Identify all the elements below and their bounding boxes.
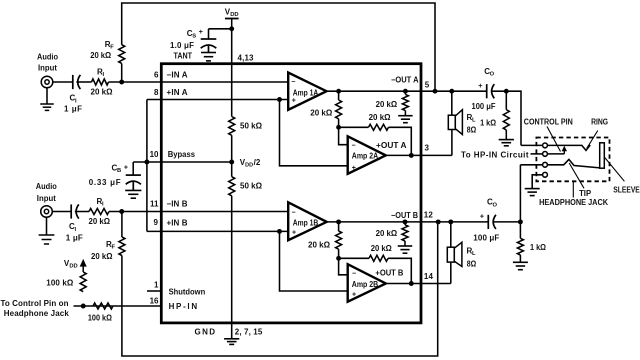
svg-text:9: 9 xyxy=(154,218,159,227)
ground CB xyxy=(125,190,141,198)
resistor RF A xyxy=(119,45,125,64)
svg-text:To HP-IN Circuit: To HP-IN Circuit xyxy=(461,151,529,160)
wire speaker B bottom lead xyxy=(450,262,452,283)
ground -OUT A 20k xyxy=(398,116,413,123)
wire speaker A top lead xyxy=(451,91,453,115)
wire Amp2A noninv input xyxy=(280,100,348,166)
resistor RI B xyxy=(89,209,109,215)
capacitor CB bypass xyxy=(126,175,141,190)
wire -OUT B xyxy=(327,221,489,223)
svg-text:O: O xyxy=(490,72,495,78)
IC body LM4863 outline xyxy=(161,64,421,323)
svg-text:100 kΩ: 100 kΩ xyxy=(88,314,113,323)
node +IN A bias tap xyxy=(277,97,282,102)
svg-text:Input: Input xyxy=(37,194,56,203)
wire CO B to jack xyxy=(493,221,521,223)
wire ring contact xyxy=(547,145,590,150)
wire 20k B horiz left lead xyxy=(339,257,369,259)
svg-text:20 kΩ: 20 kΩ xyxy=(90,51,112,60)
svg-text:DD: DD xyxy=(245,163,253,169)
svg-text:Amp 1A: Amp 1A xyxy=(293,88,319,97)
svg-text:−: − xyxy=(291,79,295,86)
node A loop feedback xyxy=(433,89,438,94)
svg-text:50 kΩ: 50 kΩ xyxy=(240,182,263,191)
svg-text:4,13: 4,13 xyxy=(238,53,255,62)
wire 50k lower to GND rail xyxy=(231,196,233,339)
wire control pin switch arm xyxy=(547,153,564,155)
wire bypass vertical xyxy=(146,100,148,232)
ground audio input A xyxy=(40,104,54,110)
svg-text:DD: DD xyxy=(69,264,77,270)
jack contact 4 sleeve xyxy=(543,172,548,177)
node B speaker tap xyxy=(448,219,453,224)
node bypass junction xyxy=(144,160,149,165)
wire 20k A horiz left lead xyxy=(339,126,369,128)
speaker RL B xyxy=(447,242,462,266)
svg-text:CONTROL PIN: CONTROL PIN xyxy=(524,118,573,127)
svg-text:−OUT B: −OUT B xyxy=(391,211,418,220)
wire CS lead xyxy=(208,29,210,39)
svg-text:+: + xyxy=(199,29,203,36)
svg-text:Audio: Audio xyxy=(36,182,57,191)
svg-text:1 μF: 1 μF xyxy=(66,233,83,242)
node B feedback tap xyxy=(336,256,341,261)
svg-text:−IN B: −IN B xyxy=(167,199,188,208)
ground GND pins xyxy=(224,339,239,345)
svg-text:+: + xyxy=(124,164,128,171)
svg-text:F: F xyxy=(110,45,114,51)
svg-text:+: + xyxy=(292,230,296,237)
svg-text:1 kΩ: 1 kΩ xyxy=(480,118,497,127)
wire audio A jack to ground xyxy=(46,88,48,104)
wire CB lead xyxy=(132,162,134,175)
node -OUT A 20k tap xyxy=(403,89,408,94)
resistor 20k B to ground xyxy=(402,225,408,241)
svg-text:20 kΩ: 20 kΩ xyxy=(89,217,111,226)
wire 50k to VDD/2 xyxy=(231,135,233,176)
node VDD/2 xyxy=(229,160,234,165)
node CO B junction xyxy=(518,219,523,224)
svg-text:100 μF: 100 μF xyxy=(472,102,496,111)
svg-text:−: − xyxy=(291,209,295,216)
svg-text:6: 6 xyxy=(154,71,159,80)
svg-text:20 kΩ: 20 kΩ xyxy=(310,109,333,118)
svg-text:+: + xyxy=(480,211,485,220)
svg-text:+: + xyxy=(352,292,356,299)
svg-text:Amp 2A: Amp 2A xyxy=(352,152,379,161)
svg-text:Amp 2B: Amp 2B xyxy=(352,280,379,289)
wire 20k A lead lower xyxy=(338,119,340,128)
svg-text:O: O xyxy=(492,202,497,208)
leader control pin xyxy=(547,127,561,152)
node -IN A junction xyxy=(119,80,124,85)
wire VDD rail xyxy=(231,19,233,117)
svg-text:50 kΩ: 50 kΩ xyxy=(240,121,263,130)
svg-text:8Ω: 8Ω xyxy=(467,125,477,134)
svg-text:1 kΩ: 1 kΩ xyxy=(530,243,547,252)
svg-text:5: 5 xyxy=(425,80,430,89)
svg-text:−OUT A: −OUT A xyxy=(391,75,419,84)
svg-text:20 kΩ: 20 kΩ xyxy=(371,244,393,253)
resistor 1k A xyxy=(503,110,509,130)
sleeve contact bar xyxy=(600,143,605,168)
capacitor CI A xyxy=(73,75,81,89)
wire audio A to CI xyxy=(53,81,73,83)
svg-text:16: 16 xyxy=(150,297,159,306)
wire speaker B top lead xyxy=(450,222,452,247)
svg-text:L: L xyxy=(472,118,476,124)
audio input jack B xyxy=(41,206,53,218)
wire RF B upper lead xyxy=(121,212,123,238)
wire 1k A lead xyxy=(505,91,507,110)
wire pin 8 +IN A xyxy=(147,99,288,101)
svg-text:F: F xyxy=(111,245,115,251)
svg-text:Amp 1B: Amp 1B xyxy=(293,219,319,228)
svg-text:+IN B: +IN B xyxy=(167,218,188,227)
resistor 20k A horizontal xyxy=(369,124,389,130)
svg-text:−: − xyxy=(352,271,356,278)
svg-text:S: S xyxy=(192,34,196,40)
svg-text:20 kΩ: 20 kΩ xyxy=(369,113,392,122)
svg-text:Input: Input xyxy=(38,63,57,72)
svg-text:HP-IN: HP-IN xyxy=(169,302,198,311)
wire 20k B gnd leads xyxy=(404,222,406,225)
svg-text:1: 1 xyxy=(154,281,159,290)
wire audio B jack to ground xyxy=(46,217,48,235)
jack contact 3 tip xyxy=(543,162,548,167)
wire 20k A horiz to +OUT A xyxy=(389,127,412,155)
svg-text:+IN A: +IN A xyxy=(167,88,188,97)
node Amp1A output xyxy=(336,89,341,94)
svg-text:8: 8 xyxy=(154,88,159,97)
wire -OUT A xyxy=(327,90,487,92)
node Amp2A output xyxy=(409,153,414,158)
ground CS xyxy=(201,53,216,61)
node 1k A tap xyxy=(504,89,509,94)
wire Amp2B inverting input xyxy=(339,258,348,275)
wire pin 1 shutdown stub xyxy=(147,290,161,292)
op-amp Amp 1B xyxy=(288,202,327,240)
wire CI A to RI xyxy=(76,81,91,83)
wire Amp2B noninv input xyxy=(280,231,348,291)
svg-text:+OUT A: +OUT A xyxy=(376,141,407,150)
wire 20k A gnd leads xyxy=(404,91,406,94)
wire 100k junction xyxy=(74,305,162,307)
leader ring xyxy=(587,131,598,149)
svg-text:/2: /2 xyxy=(254,158,261,167)
svg-text:0.33 μF: 0.33 μF xyxy=(89,178,121,187)
node Amp1B output xyxy=(336,219,341,224)
wire feedback A top loop xyxy=(122,3,435,91)
svg-text:SLEEVE: SLEEVE xyxy=(613,186,640,195)
wire 1k B to gnd xyxy=(519,255,521,262)
wire 20k A lead upper xyxy=(338,91,340,100)
VDD supply bar xyxy=(225,18,239,20)
svg-text:8Ω: 8Ω xyxy=(467,259,477,268)
speaker RL A xyxy=(448,110,462,135)
capacitor CO A xyxy=(487,84,495,98)
svg-text:−IN A: −IN A xyxy=(167,70,188,79)
resistor 20k A to ground xyxy=(402,94,408,110)
node VDD to CS branch xyxy=(229,26,234,31)
node A speaker tap xyxy=(449,89,454,94)
svg-text:−: − xyxy=(352,143,356,150)
wire pin 10 bypass xyxy=(133,161,232,163)
op-amp Amp 1A xyxy=(288,73,326,110)
wire CO A to jack xyxy=(491,91,521,145)
resistor 1k B xyxy=(517,238,523,255)
svg-text:Shutdown: Shutdown xyxy=(169,287,206,296)
jack contact 1 xyxy=(543,143,548,148)
svg-text:RING: RING xyxy=(591,118,608,127)
svg-text:100 μF: 100 μF xyxy=(473,234,499,243)
svg-text:HEADPHONE JACK: HEADPHONE JACK xyxy=(539,198,608,207)
leader tip xyxy=(569,163,584,188)
arrow VDD pullup xyxy=(82,265,84,272)
svg-text:1 μF: 1 μF xyxy=(64,104,82,113)
node A feedback tap xyxy=(336,125,341,130)
svg-text:12: 12 xyxy=(424,211,434,220)
wire 20k B lead upper xyxy=(338,222,340,231)
svg-text:3: 3 xyxy=(425,144,430,153)
wire control pin stub xyxy=(531,153,543,155)
wire feedback B bottom loop xyxy=(122,222,438,356)
svg-text:20 kΩ: 20 kΩ xyxy=(308,240,331,249)
svg-text:20 kΩ: 20 kΩ xyxy=(376,100,398,109)
wire RI B to pin 11 -IN B xyxy=(109,211,288,213)
svg-text:TANT: TANT xyxy=(174,51,193,60)
node -OUT B 20k tap xyxy=(403,219,408,224)
svg-text:1.0 μF: 1.0 μF xyxy=(170,41,194,50)
resistor RF B xyxy=(119,237,125,256)
wire branch to CS xyxy=(209,28,232,30)
wire RI A to pin 6 -IN A xyxy=(109,81,289,83)
svg-text:GND: GND xyxy=(195,328,216,337)
wire 1k A to gnd xyxy=(505,130,507,140)
ground -OUT B 20k xyxy=(398,246,413,253)
svg-text:TIP: TIP xyxy=(579,189,592,198)
wire Amp2A inverting input xyxy=(339,127,348,144)
svg-text:Bypass: Bypass xyxy=(168,150,196,159)
node +IN B bias tap xyxy=(277,229,282,234)
leader headphone jack xyxy=(572,181,574,197)
resistor 20k A feedback1 xyxy=(336,100,342,119)
wire 1k B lead xyxy=(519,222,521,238)
leader sleeve xyxy=(604,157,624,181)
svg-text:L: L xyxy=(472,251,476,257)
svg-text:Audio: Audio xyxy=(37,52,58,61)
capacitor CO B xyxy=(488,215,496,229)
wire +OUT A xyxy=(386,154,452,156)
wire 20k B lead lower xyxy=(338,249,340,258)
node -IN B junction xyxy=(119,209,124,214)
resistor RI A xyxy=(92,79,109,85)
resistor 50k upper xyxy=(229,117,235,136)
svg-text:20 kΩ: 20 kΩ xyxy=(91,252,113,261)
svg-text:11: 11 xyxy=(150,199,159,208)
wire jack sleeve to ground xyxy=(532,175,542,189)
svg-text:Headphone Jack: Headphone Jack xyxy=(4,309,70,318)
op-amp Amp 2A xyxy=(348,136,386,174)
resistor 20k B horizontal xyxy=(369,255,388,261)
svg-text:10: 10 xyxy=(150,150,159,159)
svg-text:20 kΩ: 20 kΩ xyxy=(91,87,114,96)
resistor 100k horizontal xyxy=(93,303,113,309)
node B loop feedback xyxy=(436,219,441,224)
resistor 20k B feedback1 xyxy=(336,231,342,249)
svg-text:+OUT B: +OUT B xyxy=(375,268,403,277)
ground 1k A xyxy=(499,140,514,146)
wire audio B to CI xyxy=(52,211,71,213)
wire 20k B horiz to +OUT B xyxy=(388,258,411,283)
svg-text:14: 14 xyxy=(424,272,434,281)
wire jack tip stub xyxy=(520,164,542,166)
ground audio input B xyxy=(39,235,55,244)
svg-text:100 kΩ: 100 kΩ xyxy=(46,278,74,287)
svg-text:+: + xyxy=(478,81,483,90)
audio input jack A xyxy=(41,76,53,88)
wire jack tip feed xyxy=(519,165,521,222)
wire +OUT B xyxy=(386,283,451,285)
svg-text:20 kΩ: 20 kΩ xyxy=(376,229,398,238)
wire tip contact xyxy=(547,159,600,168)
svg-text:To Control Pin on: To Control Pin on xyxy=(1,299,69,308)
node Amp2B output xyxy=(409,281,414,286)
capacitor CS bypass supply xyxy=(201,39,217,53)
headphone jack dashed box xyxy=(536,138,609,182)
wire jack ring feed xyxy=(521,144,543,146)
svg-text:B: B xyxy=(117,168,121,174)
wire RF A lower lead xyxy=(121,63,123,82)
op-amp Amp 2B xyxy=(348,264,386,302)
ground jack sleeve xyxy=(525,189,540,196)
node HP-IN divider xyxy=(81,304,86,309)
jack contact 2 control pin xyxy=(543,152,548,157)
ground 1k B xyxy=(513,262,528,269)
wire speaker A bottom lead xyxy=(451,130,453,156)
svg-text:+: + xyxy=(292,97,296,104)
capacitor CI B xyxy=(71,204,79,218)
wire pin 9 +IN B xyxy=(147,230,288,232)
svg-text:+: + xyxy=(352,165,356,172)
resistor 100k vertical xyxy=(80,272,86,292)
svg-text:DD: DD xyxy=(230,12,238,18)
resistor 50k lower xyxy=(229,177,235,196)
wire CI B to RI xyxy=(75,211,89,213)
svg-text:2, 7, 15: 2, 7, 15 xyxy=(235,328,263,337)
